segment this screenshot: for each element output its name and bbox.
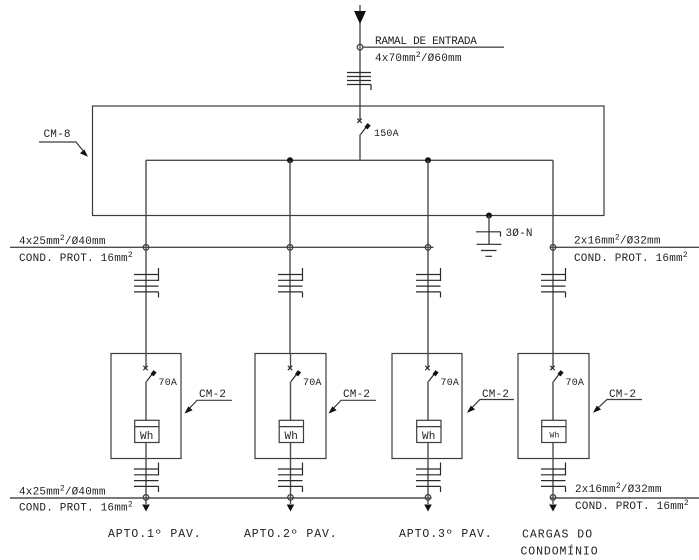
- svg-text:COND. PROT. 16mm2: COND. PROT. 16mm2: [575, 499, 689, 513]
- svg-text:CARGAS DO: CARGAS DO: [522, 529, 593, 542]
- svg-text:CM-2: CM-2: [343, 389, 370, 401]
- svg-text:APTO.2º PAV.: APTO.2º PAV.: [244, 528, 338, 541]
- svg-text:4x70mm2/Ø60mm: 4x70mm2/Ø60mm: [375, 51, 462, 65]
- svg-text:CONDOMÍNIO: CONDOMÍNIO: [521, 545, 599, 559]
- svg-text:Wh: Wh: [422, 431, 436, 443]
- svg-text:2x16mm2/Ø32mm: 2x16mm2/Ø32mm: [574, 234, 661, 248]
- svg-text:CM-2: CM-2: [199, 389, 226, 401]
- svg-text:Wh: Wh: [550, 432, 560, 441]
- svg-text:4x25mm2/Ø40mm: 4x25mm2/Ø40mm: [19, 234, 106, 248]
- svg-text:70A: 70A: [303, 378, 322, 389]
- svg-text:3Ø-N: 3Ø-N: [506, 228, 533, 240]
- svg-text:COND. PROT. 16mm2: COND. PROT. 16mm2: [574, 251, 688, 265]
- svg-text:70A: 70A: [441, 378, 460, 389]
- svg-text:70A: 70A: [159, 378, 178, 389]
- svg-text:70A: 70A: [566, 378, 585, 389]
- svg-text:CM-8: CM-8: [44, 129, 71, 141]
- svg-text:RAMAL DE ENTRADA: RAMAL DE ENTRADA: [375, 36, 477, 48]
- svg-text:Wh: Wh: [285, 431, 299, 443]
- svg-text:4x25mm2/Ø40mm: 4x25mm2/Ø40mm: [19, 485, 106, 499]
- svg-text:2x16mm2/Ø32mm: 2x16mm2/Ø32mm: [575, 482, 662, 496]
- svg-text:COND. PROT. 16mm2: COND. PROT. 16mm2: [19, 501, 133, 515]
- svg-text:Wh: Wh: [140, 431, 154, 443]
- svg-text:150A: 150A: [374, 129, 399, 140]
- svg-text:APTO.1º PAV.: APTO.1º PAV.: [108, 528, 202, 541]
- svg-text:APTO.3º PAV.: APTO.3º PAV.: [399, 528, 493, 541]
- svg-text:COND. PROT. 16mm2: COND. PROT. 16mm2: [19, 251, 133, 265]
